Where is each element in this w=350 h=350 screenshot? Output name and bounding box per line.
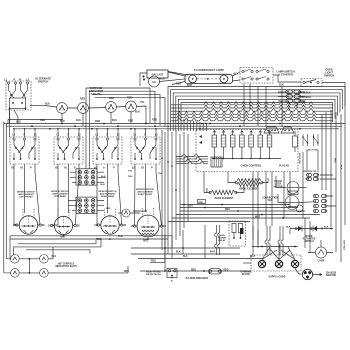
wire label RED box — [198, 200, 206, 204]
receptacle J1 meat probe — [167, 269, 177, 278]
motor M1 door lock — [287, 182, 299, 194]
wire oven light switch right — [322, 83, 345, 109]
lamp DS1 surface indicator light — [57, 103, 68, 114]
svg-text:BLK: BLK — [112, 119, 117, 122]
wire indicator light bus — [45, 106, 126, 109]
svg-text:CH: CH — [152, 81, 156, 84]
lamp DS5 oven light — [122, 209, 130, 217]
svg-text:RED: RED — [199, 202, 204, 204]
heater broil element — [237, 179, 261, 183]
svg-text:MOTOR: MOTOR — [274, 185, 283, 188]
heater E3 dashed links — [105, 209, 116, 219]
svg-text:OVEN CONTROL: OVEN CONTROL — [241, 164, 262, 168]
svg-text:BLK: BLK — [16, 121, 21, 124]
svg-text:RED: RED — [124, 271, 129, 273]
wire mesh nested routing — [168, 87, 345, 132]
terminal block TB1 — [251, 255, 301, 271]
lamp DS9 hot surface light — [11, 269, 20, 278]
svg-text:BLK: BLK — [135, 111, 140, 114]
wire lamp switch to oven light switch — [273, 75, 301, 82]
svg-text:2S: 2S — [163, 225, 166, 228]
component D1 rectifier — [240, 228, 243, 234]
lamp FL1 fluorescent lamp body — [185, 74, 233, 83]
wire hot surface lights — [19, 259, 128, 273]
lamp DS3 surface indicator light — [106, 102, 117, 113]
wire lamp switch drops — [244, 84, 282, 128]
switch S2 lamp switch and starter — [240, 68, 273, 84]
wire connector CN1 leads — [278, 92, 286, 101]
wire element drops — [14, 172, 79, 225]
svg-text:YEL: YEL — [128, 171, 133, 173]
wire broil bake links — [204, 172, 268, 193]
heater E2 dashed links — [58, 209, 69, 219]
svg-text:RED: RED — [191, 269, 196, 271]
wire upper left link — [8, 119, 62, 121]
switch INF3 infinite switch block — [93, 137, 122, 164]
svg-text:RED/BLK: RED/BLK — [301, 97, 312, 99]
relay K8 power relay box — [229, 221, 246, 246]
svg-text:DOOR SW: DOOR SW — [298, 153, 300, 165]
wire mesh left corners — [86, 88, 150, 123]
svg-text:A: A — [103, 167, 105, 170]
wire mid horizontal runs — [168, 205, 320, 222]
connector CB2 terminal block — [76, 197, 97, 213]
svg-text:15A MINI-BREAKER: 15A MINI-BREAKER — [185, 277, 208, 280]
wire right verticals extra — [303, 150, 318, 218]
svg-text:SUPPLY CORD: SUPPLY CORD — [268, 276, 285, 279]
svg-text:RED: RED — [225, 209, 230, 211]
wire harness bundle — [171, 102, 333, 105]
svg-text:RED: RED — [151, 261, 156, 263]
svg-text:LAMP: LAMP — [318, 260, 325, 263]
svg-text:INDICATOR LIGHTS: INDICATOR LIGHTS — [55, 265, 77, 268]
wire breaker line — [140, 270, 251, 272]
svg-text:RED: RED — [127, 97, 132, 100]
wire lamp left leads — [168, 72, 185, 85]
wire center trunks — [162, 130, 188, 262]
connector pills right upper — [307, 174, 312, 177]
svg-text:RECEPTACLE: RECEPTACLE — [146, 273, 161, 276]
wire bundle into control — [176, 155, 208, 157]
svg-text:BLK: BLK — [101, 184, 106, 186]
svg-text:GROUND: GROUND — [326, 275, 337, 277]
svg-text:BLK: BLK — [101, 176, 106, 178]
svg-text:BLK: BLK — [279, 84, 284, 87]
svg-text:YEL ORN YEL: YEL ORN YEL — [303, 171, 318, 173]
heater E1 surface element — [19, 216, 37, 234]
svg-text:RED: RED — [80, 98, 85, 101]
svg-text:LEFT REAR: LEFT REAR — [54, 195, 66, 198]
svg-text:TAN: TAN — [118, 235, 123, 238]
svg-text:RED: RED — [188, 206, 193, 208]
svg-text:2S: 2S — [141, 167, 144, 170]
svg-text:BLK: BLK — [160, 78, 165, 81]
wire bottom right verticals — [253, 226, 333, 244]
wire INF3 drops — [97, 164, 118, 174]
svg-text:2S: 2S — [77, 225, 80, 228]
lamp DS7 hot surface light — [11, 254, 20, 263]
wire lower RED buses — [10, 236, 172, 239]
svg-text:RED: RED — [60, 237, 65, 239]
switch S3 oven light switch — [301, 79, 322, 87]
svg-text:BLK: BLK — [324, 227, 329, 229]
wire bus entries — [13, 130, 15, 138]
svg-text:1S: 1S — [13, 224, 16, 227]
wire connector CN1 drops — [289, 104, 297, 112]
switch door microswitch — [293, 136, 298, 147]
svg-text:BLK: BLK — [52, 256, 57, 258]
svg-text:BLK: BLK — [45, 103, 50, 106]
wire INF2 drops — [58, 164, 79, 174]
svg-text:RED: RED — [109, 97, 114, 100]
wire bottom left nest — [14, 238, 101, 255]
wire INF4 drops — [135, 164, 156, 174]
svg-text:SWITCH: SWITCH — [38, 80, 49, 84]
wire left edge vertical — [4, 110, 10, 273]
svg-text:RED: RED — [128, 120, 133, 123]
switch door activated contacts — [290, 228, 330, 230]
svg-text:1S: 1S — [131, 225, 134, 228]
wire main bus A — [4, 123, 345, 125]
relay bank K1-K7 — [212, 135, 217, 147]
svg-text:WHT: WHT — [210, 252, 216, 254]
wire indicator drops — [62, 112, 131, 126]
svg-text:& STARTER: & STARTER — [278, 73, 293, 77]
ground plug chassis — [302, 269, 312, 279]
wire main bus C — [14, 128, 339, 130]
svg-text:BLK: BLK — [340, 165, 342, 170]
connector trapezoid B — [281, 127, 294, 133]
svg-text:2S: 2S — [123, 224, 126, 227]
svg-text:BAKE ELEMENT: BAKE ELEMENT — [215, 197, 234, 200]
wire ballast leads — [149, 78, 161, 79]
svg-text:BLK: BLK — [176, 252, 181, 254]
coil L1 oven control — [211, 157, 222, 167]
breaker CB 15A mini breaker — [209, 269, 222, 274]
wire right edge verticals — [322, 108, 345, 262]
switch SW1 alternate switch box — [6, 81, 31, 110]
lamp DS2 surface indicator light — [78, 103, 89, 114]
wire main bus B — [6, 125, 342, 127]
svg-text:BLK: BLK — [76, 119, 81, 122]
svg-text:YEL: YEL — [140, 101, 145, 104]
switch INF4 infinite switch block — [131, 137, 160, 164]
svg-text:CHASSIS: CHASSIS — [326, 272, 337, 275]
wire chassis ground arrow — [313, 273, 322, 276]
heater E1 dashed links — [23, 209, 34, 219]
ballast box — [147, 70, 168, 78]
svg-text:HOT SURFACE: HOT SURFACE — [58, 263, 75, 266]
svg-text:BROIL ELEMENT: BROIL ELEMENT — [239, 188, 259, 191]
module U1 oven control box — [196, 130, 298, 172]
svg-text:LEFT FRONT: LEFT FRONT — [19, 196, 33, 198]
heater E2 surface element — [54, 216, 72, 234]
svg-text:YEL: YEL — [158, 173, 163, 175]
wire oven control drops — [253, 172, 290, 256]
wire relay bank rail — [212, 158, 281, 160]
switch INF1 infinite switch block — [10, 137, 39, 164]
wire oven light leads — [118, 212, 140, 214]
svg-text:BLK: BLK — [183, 256, 188, 258]
svg-text:RED: RED — [143, 241, 148, 243]
svg-text:BLK: BLK — [234, 73, 239, 76]
svg-text:ACTIVATED: ACTIVATED — [303, 238, 316, 241]
heater E4 surface element — [137, 215, 159, 237]
svg-text:BLOCK: BLOCK — [242, 274, 251, 276]
wire twin bundle drops — [265, 226, 267, 255]
ballast choke CH — [149, 76, 160, 87]
wire left drop pair — [86, 88, 90, 169]
wire INF1 drops — [14, 164, 35, 174]
switch INF2 infinite switch block — [54, 137, 83, 164]
svg-text:SWITCH: SWITCH — [304, 241, 313, 243]
svg-text:1S: 1S — [48, 225, 51, 228]
svg-text:BLK: BLK — [286, 227, 291, 229]
svg-text:RED: RED — [106, 208, 111, 210]
heater E3 surface element — [101, 216, 119, 234]
svg-text:RED: RED — [224, 269, 229, 271]
svg-text:RED: RED — [40, 119, 45, 122]
svg-text:2S: 2S — [42, 224, 45, 227]
svg-text:WHT: WHT — [250, 256, 256, 258]
svg-text:TAN: TAN — [128, 175, 133, 178]
svg-text:LATCH SW: LATCH SW — [306, 149, 318, 152]
wire right mid links — [276, 176, 307, 188]
switch latch switches — [303, 134, 308, 146]
motor M2 convection fan — [285, 196, 299, 210]
wire terminal fan-out — [262, 244, 295, 260]
lamp DS8 hot surface light — [40, 254, 49, 263]
lamp DS4 surface indicator light — [126, 101, 137, 112]
heater E4 dashed links — [143, 208, 154, 218]
svg-text:RED: RED — [334, 158, 336, 163]
lamp DS6 oven lamp — [315, 247, 326, 258]
svg-text:RED: RED — [95, 120, 100, 123]
svg-text:FLUORESCENT LAMP: FLUORESCENT LAMP — [194, 68, 224, 72]
wire connector CB leads — [68, 172, 76, 211]
connector pills right column — [314, 195, 319, 198]
wire lamp right leads — [233, 72, 241, 81]
connector arrows left — [199, 135, 202, 144]
connector CN1 six pin block — [286, 90, 293, 94]
wire bottom mid line — [131, 247, 240, 249]
svg-text:240V BLK: 240V BLK — [343, 240, 346, 251]
wire center drops — [165, 225, 205, 271]
svg-text:BLK: BLK — [60, 120, 65, 123]
svg-text:SWITCH: SWITCH — [324, 74, 334, 78]
heater bake element — [211, 190, 235, 194]
connector CB1 terminal block — [76, 169, 97, 185]
wire bottom buses — [131, 254, 263, 259]
lamp DS10 hot surface light — [40, 269, 49, 278]
wire twin pair left — [215, 225, 217, 255]
svg-text:LIGHTS: LIGHTS — [91, 92, 101, 96]
ballast dots — [143, 76, 145, 78]
wire from alternate switch down — [9, 110, 11, 124]
svg-text:PLUG-IN: PLUG-IN — [279, 165, 289, 168]
connector trapezoid A — [264, 127, 279, 133]
svg-text:RED: RED — [152, 119, 157, 122]
